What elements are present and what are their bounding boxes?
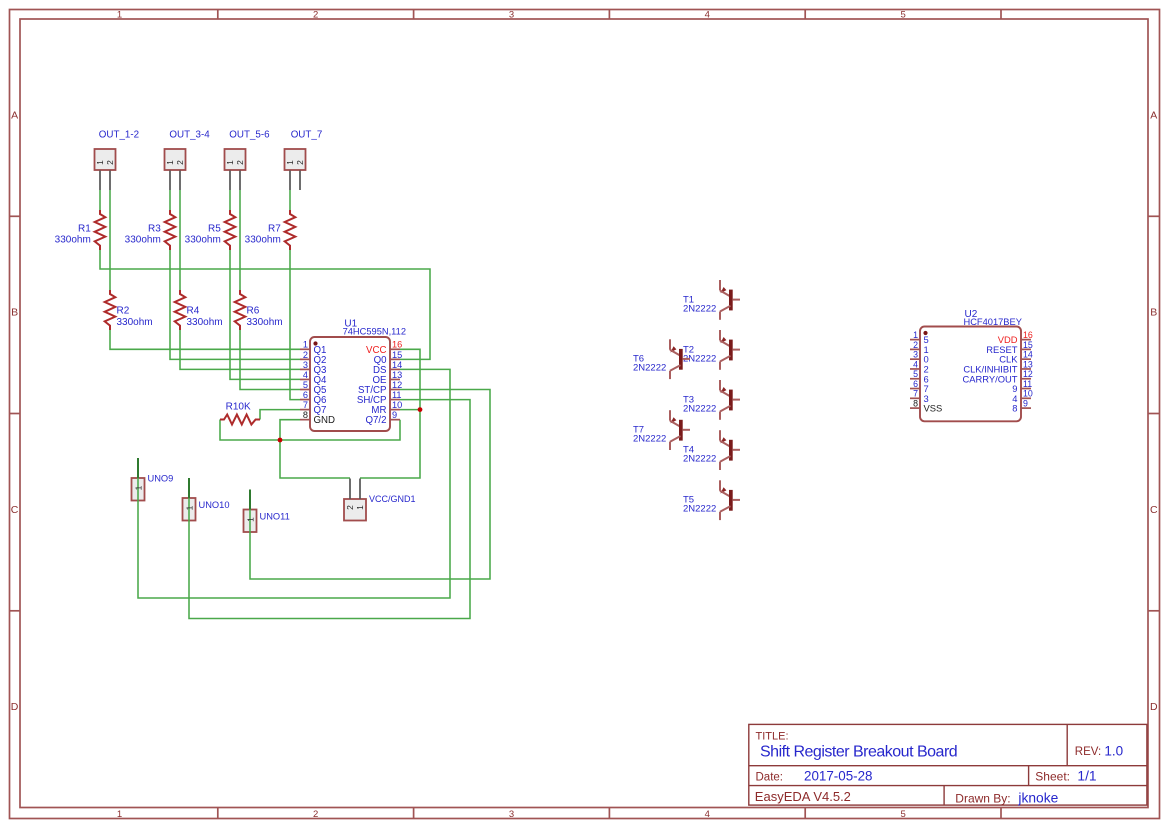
svg-text:OUT_3-4: OUT_3-4	[169, 130, 210, 141]
transistor T5	[719, 480, 721, 491]
svg-text:330ohm: 330ohm	[247, 317, 283, 328]
U2 pin 1 5	[910, 339, 920, 341]
svg-text:2N2222: 2N2222	[633, 434, 666, 445]
svg-text:14: 14	[392, 360, 402, 370]
resistor R6	[235, 290, 246, 330]
svg-text:2N2222: 2N2222	[633, 363, 666, 374]
svg-text:C: C	[11, 504, 19, 516]
svg-text:15: 15	[1023, 340, 1033, 350]
svg-text:2N2222: 2N2222	[683, 504, 716, 515]
svg-text:14: 14	[1023, 350, 1033, 360]
svg-text:4: 4	[913, 359, 918, 369]
wire U1 MR pin10	[400, 409, 420, 411]
svg-text:5: 5	[900, 10, 905, 21]
svg-text:TITLE:: TITLE:	[756, 731, 789, 743]
UNO9 pin 1	[137, 458, 139, 478]
svg-text:1: 1	[913, 330, 918, 340]
wire R6 to U1 Q5 pin5	[240, 330, 300, 390]
U2 pin 2 1	[910, 348, 920, 350]
wire R2 to U1 Q1 pin1	[110, 330, 300, 349]
svg-text:1: 1	[303, 340, 308, 350]
svg-text:13: 13	[392, 370, 402, 380]
svg-text:CARRY/OUT: CARRY/OUT	[962, 373, 1017, 384]
svg-text:5: 5	[303, 380, 308, 390]
OUT_3-4 pin 2	[179, 171, 181, 191]
wire OUT_1-2.1 to R1	[99, 190, 101, 210]
OUT_1-2 pin 2	[109, 171, 111, 191]
svg-text:1: 1	[355, 505, 365, 510]
U1 pin 5 Q5	[300, 389, 310, 391]
svg-text:2: 2	[105, 160, 115, 165]
svg-text:UNO9: UNO9	[148, 474, 174, 484]
resistor R7	[285, 210, 296, 250]
U1 pin 3 Q3	[300, 368, 310, 370]
svg-text:3: 3	[509, 10, 514, 21]
OUT_1-2 pin 1	[99, 171, 101, 191]
svg-text:2: 2	[303, 350, 308, 360]
svg-text:R4: R4	[187, 306, 200, 317]
UNO10 pin 1	[188, 478, 190, 498]
U2 pin 15 RESET	[1021, 348, 1031, 350]
transistor T7	[669, 410, 671, 421]
OUT_7 pin 2	[299, 171, 301, 191]
svg-text:13: 13	[1023, 359, 1033, 369]
svg-text:1: 1	[246, 517, 256, 522]
U1 pin 16 VCC	[390, 348, 400, 350]
connector VCC/GND1	[344, 499, 366, 521]
U1 pin 2 Q2	[300, 358, 310, 360]
wire R3 to U1 Q2 pin2	[170, 250, 300, 359]
svg-text:R7: R7	[268, 223, 281, 234]
svg-text:VSS: VSS	[924, 403, 943, 414]
svg-text:Q7/2: Q7/2	[365, 415, 386, 426]
U1 pin 8 GND	[300, 419, 310, 421]
svg-text:1: 1	[225, 160, 235, 165]
U2 pin 5 6	[910, 378, 920, 380]
svg-text:2: 2	[313, 10, 318, 21]
svg-text:8: 8	[1012, 403, 1017, 414]
wire OUT_7.1 to R7	[289, 190, 291, 210]
svg-text:1: 1	[134, 485, 144, 490]
wire OUT_3-4.1 to R3	[169, 190, 171, 210]
wire R4 to U1 Q3 pin3	[180, 330, 300, 369]
OUT_7 pin 1	[289, 171, 291, 191]
resistor R2	[105, 290, 116, 330]
U1 pin 13 OE	[390, 378, 400, 380]
svg-text:2: 2	[345, 505, 355, 510]
svg-text:2: 2	[313, 809, 318, 820]
svg-text:3: 3	[913, 350, 918, 360]
U2 pin 7 3	[910, 397, 920, 399]
U2 pin 4 2	[910, 368, 920, 370]
U2 pin 3 0	[910, 358, 920, 360]
svg-text:6: 6	[303, 390, 308, 400]
svg-text:330ohm: 330ohm	[187, 317, 223, 328]
svg-text:A: A	[1150, 109, 1157, 121]
svg-text:Date:: Date:	[756, 772, 784, 784]
U1 pin 1 Q1	[300, 348, 310, 350]
U1 pin 9 Q7/2	[390, 419, 400, 421]
svg-text:1/1: 1/1	[1077, 769, 1096, 784]
svg-text:2: 2	[175, 160, 185, 165]
U2 pin 12 CARRY/OUT	[1021, 378, 1031, 380]
wire GND net to VCC/GND1 pin2	[280, 440, 350, 478]
wire R5 to U1 Q4 pin4	[230, 250, 300, 379]
VCC/GND1 pin 1	[359, 479, 361, 500]
svg-text:8: 8	[303, 410, 308, 420]
OUT_5-6 pin 1	[229, 171, 231, 191]
svg-text:D: D	[1150, 701, 1158, 713]
svg-text:1.0: 1.0	[1104, 743, 1123, 758]
svg-text:330ohm: 330ohm	[125, 234, 161, 245]
svg-text:R10K: R10K	[226, 402, 251, 413]
svg-text:7: 7	[913, 389, 918, 399]
svg-text:10: 10	[1023, 389, 1033, 399]
svg-text:OUT_1-2: OUT_1-2	[99, 130, 139, 141]
connector UNO11	[244, 510, 257, 533]
title block	[749, 724, 1147, 805]
U1 pin 4 Q4	[300, 378, 310, 380]
resistor R4	[175, 290, 186, 330]
svg-text:6: 6	[913, 379, 918, 389]
svg-text:UNO10: UNO10	[199, 500, 230, 510]
wire U1 Q7 to R10K	[260, 410, 300, 420]
VCC/GND1 pin 2	[349, 479, 351, 500]
svg-text:B: B	[11, 307, 18, 319]
svg-text:1: 1	[285, 160, 295, 165]
svg-text:10: 10	[392, 400, 402, 410]
transistor T4	[719, 430, 721, 441]
transistor T1	[719, 280, 721, 291]
U2 pin 8 VSS	[910, 407, 920, 409]
junction GND net	[278, 438, 283, 443]
svg-text:2: 2	[913, 340, 918, 350]
wire U1 GND pin8	[280, 420, 300, 440]
U2 pin 9 8	[1021, 407, 1031, 409]
svg-text:12: 12	[1023, 369, 1033, 379]
svg-text:R2: R2	[117, 306, 130, 317]
U1 pin 10 MR	[390, 409, 400, 411]
svg-text:2N2222: 2N2222	[683, 303, 716, 314]
resistor R10K	[220, 415, 260, 425]
U1 pin-1 mark	[313, 341, 317, 345]
connector UNO10	[183, 498, 196, 521]
wire U1 SH/CP pin11 to UNO10	[189, 400, 470, 619]
U2 pin-1 mark	[923, 331, 927, 335]
svg-text:16: 16	[392, 340, 402, 350]
wire R10K to GND net	[220, 420, 400, 441]
U1 pin 14 DS	[390, 368, 400, 370]
svg-text:1: 1	[95, 160, 105, 165]
junction VCC net	[418, 407, 423, 412]
U2 pin 11 9	[1021, 388, 1031, 390]
U1 pin 11 SH/CP	[390, 399, 400, 401]
svg-text:C: C	[1150, 504, 1158, 516]
svg-text:16: 16	[1023, 330, 1033, 340]
svg-text:2: 2	[235, 160, 245, 165]
svg-text:5: 5	[913, 369, 918, 379]
wire OUT_1-2.2 to R2	[109, 190, 111, 290]
wire U1 VCC pin16 to VCC/GND1 pin1	[360, 349, 420, 478]
svg-text:REV:: REV:	[1075, 746, 1101, 758]
svg-text:A: A	[11, 109, 18, 121]
U2 pin 10 4	[1021, 397, 1031, 399]
OUT_5-6 pin 2	[239, 171, 241, 191]
wire OUT_5-6.2 to R6	[239, 190, 241, 290]
wire U1 DS pin14 to UNO9	[138, 369, 450, 598]
svg-text:74HC595N,112: 74HC595N,112	[343, 327, 406, 337]
svg-text:R1: R1	[78, 223, 91, 234]
wire U1 ST/CP pin12 to UNO11	[250, 390, 490, 580]
svg-text:11: 11	[1023, 379, 1032, 389]
svg-text:11: 11	[392, 390, 402, 400]
svg-text:B: B	[1150, 307, 1157, 319]
svg-text:1: 1	[117, 809, 122, 820]
svg-text:9: 9	[392, 410, 397, 420]
svg-text:D: D	[11, 701, 19, 713]
svg-text:5: 5	[900, 809, 905, 820]
svg-text:R3: R3	[148, 223, 161, 234]
svg-text:2N2222: 2N2222	[683, 454, 716, 465]
svg-text:330ohm: 330ohm	[117, 317, 153, 328]
svg-text:GND: GND	[314, 415, 336, 426]
U2 pin 16 VDD	[1021, 339, 1031, 341]
wire R1 to U1 Q0 pin15	[100, 250, 430, 359]
svg-text:R5: R5	[208, 223, 221, 234]
svg-text:Drawn By:: Drawn By:	[955, 792, 1010, 806]
svg-text:1: 1	[185, 505, 195, 510]
svg-text:4: 4	[705, 10, 710, 21]
svg-text:1: 1	[117, 10, 122, 21]
svg-text:2N2222: 2N2222	[683, 403, 716, 414]
svg-text:OUT_7: OUT_7	[291, 130, 323, 141]
resistor R1	[95, 210, 106, 250]
svg-text:15: 15	[392, 350, 402, 360]
svg-text:3: 3	[303, 360, 308, 370]
resistor R5	[225, 210, 236, 250]
U2 pin 13 CLK/INHIBIT	[1021, 368, 1031, 370]
svg-text:330ohm: 330ohm	[55, 234, 91, 245]
svg-text:Shift Register Breakout Board: Shift Register Breakout Board	[760, 744, 957, 761]
svg-text:330ohm: 330ohm	[185, 234, 221, 245]
transistor T3	[719, 380, 721, 391]
svg-text:2: 2	[295, 160, 305, 165]
svg-text:EasyEDA V4.5.2: EasyEDA V4.5.2	[755, 789, 851, 804]
svg-text:OUT_5-6: OUT_5-6	[229, 130, 270, 141]
connector UNO9	[132, 478, 145, 501]
U2 pin 14 CLK	[1021, 358, 1031, 360]
wire OUT_3-4.2 to R4	[179, 190, 181, 290]
svg-text:VCC/GND1: VCC/GND1	[369, 494, 416, 504]
svg-text:jknoke: jknoke	[1017, 791, 1058, 806]
resistor R3	[165, 210, 176, 250]
svg-text:12: 12	[392, 380, 402, 390]
transistor T6	[669, 339, 671, 350]
UNO11 pin 1	[249, 490, 251, 510]
U2 pin 6 7	[910, 388, 920, 390]
svg-text:3: 3	[509, 809, 514, 820]
svg-text:330ohm: 330ohm	[245, 234, 281, 245]
svg-text:UNO11: UNO11	[260, 512, 290, 522]
U1 pin 7 Q7	[300, 409, 310, 411]
svg-text:2017-05-28: 2017-05-28	[804, 769, 873, 784]
svg-text:7: 7	[303, 400, 308, 410]
svg-text:1: 1	[165, 160, 175, 165]
U1 pin 12 ST/CP	[390, 389, 400, 391]
U1 pin 6 Q6	[300, 399, 310, 401]
wire R7 to U1 Q6 pin6	[290, 250, 300, 400]
svg-text:R6: R6	[247, 306, 260, 317]
svg-text:8: 8	[913, 399, 918, 409]
svg-text:Sheet:: Sheet:	[1035, 770, 1070, 784]
U1 pin 15 Q0	[390, 358, 400, 360]
transistor T2	[719, 330, 721, 341]
OUT_3-4 pin 1	[169, 171, 171, 191]
svg-text:9: 9	[1023, 399, 1028, 409]
svg-text:4: 4	[303, 370, 308, 380]
wire OUT_5-6.1 to R5	[229, 190, 231, 210]
svg-text:4: 4	[705, 809, 710, 820]
